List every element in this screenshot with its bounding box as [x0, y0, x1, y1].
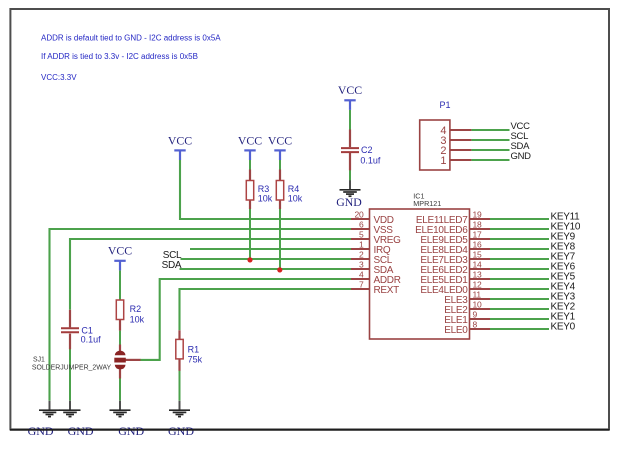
svg-text:VCC:3.3V: VCC:3.3V — [41, 73, 77, 82]
svg-text:2: 2 — [359, 250, 364, 260]
svg-text:13: 13 — [473, 270, 483, 280]
svg-text:11: 11 — [473, 290, 482, 300]
svg-text:10k: 10k — [288, 193, 303, 203]
svg-text:ADDR is default tied to GND -: ADDR is default tied to GND - I2C addres… — [41, 34, 221, 43]
svg-text:GND: GND — [336, 195, 362, 209]
svg-text:17: 17 — [473, 230, 483, 240]
svg-text:GND: GND — [68, 424, 94, 438]
svg-text:6: 6 — [359, 220, 364, 230]
svg-text:R1: R1 — [188, 345, 200, 355]
svg-text:MPR121: MPR121 — [413, 199, 441, 208]
svg-text:KEY0: KEY0 — [551, 322, 576, 333]
svg-text:SJ1: SJ1 — [33, 356, 45, 363]
svg-text:GND: GND — [28, 424, 54, 438]
svg-text:R2: R2 — [130, 304, 142, 314]
svg-text:5: 5 — [359, 230, 364, 240]
svg-text:SDA: SDA — [162, 260, 182, 271]
svg-text:8: 8 — [473, 320, 478, 330]
svg-text:SOLDERJUMPER_2WAY: SOLDERJUMPER_2WAY — [32, 364, 112, 371]
svg-text:VCC: VCC — [168, 133, 192, 147]
svg-text:1: 1 — [440, 155, 446, 167]
svg-text:0.1uf: 0.1uf — [360, 155, 381, 165]
svg-text:7: 7 — [359, 280, 364, 290]
svg-text:If ADDR is tied to 3.3v - I2C: If ADDR is tied to 3.3v - I2C address is… — [41, 52, 198, 61]
svg-text:GND: GND — [168, 424, 194, 438]
svg-text:GND: GND — [118, 424, 144, 438]
svg-text:1: 1 — [359, 240, 364, 250]
svg-text:19: 19 — [473, 210, 483, 220]
svg-text:14: 14 — [473, 260, 483, 270]
svg-text:12: 12 — [473, 280, 483, 290]
svg-text:10: 10 — [473, 300, 483, 310]
svg-text:GND: GND — [511, 151, 532, 162]
svg-text:15: 15 — [473, 250, 483, 260]
svg-text:C2: C2 — [361, 145, 373, 155]
svg-text:16: 16 — [473, 240, 483, 250]
svg-text:ELE0: ELE0 — [444, 325, 468, 336]
svg-text:VCC: VCC — [108, 244, 132, 258]
svg-text:VCC: VCC — [268, 133, 292, 147]
svg-text:0.1uf: 0.1uf — [81, 334, 102, 344]
svg-text:10k: 10k — [258, 193, 273, 203]
svg-text:REXT: REXT — [374, 285, 400, 296]
svg-text:10k: 10k — [130, 315, 145, 325]
svg-text:20: 20 — [354, 210, 364, 220]
svg-text:18: 18 — [473, 220, 483, 230]
svg-text:3: 3 — [359, 260, 364, 270]
svg-text:75k: 75k — [188, 354, 203, 364]
svg-text:P1: P1 — [440, 100, 451, 110]
svg-text:9: 9 — [473, 310, 478, 320]
svg-text:VCC: VCC — [338, 83, 362, 97]
svg-text:VCC: VCC — [238, 133, 262, 147]
svg-text:4: 4 — [359, 270, 364, 280]
